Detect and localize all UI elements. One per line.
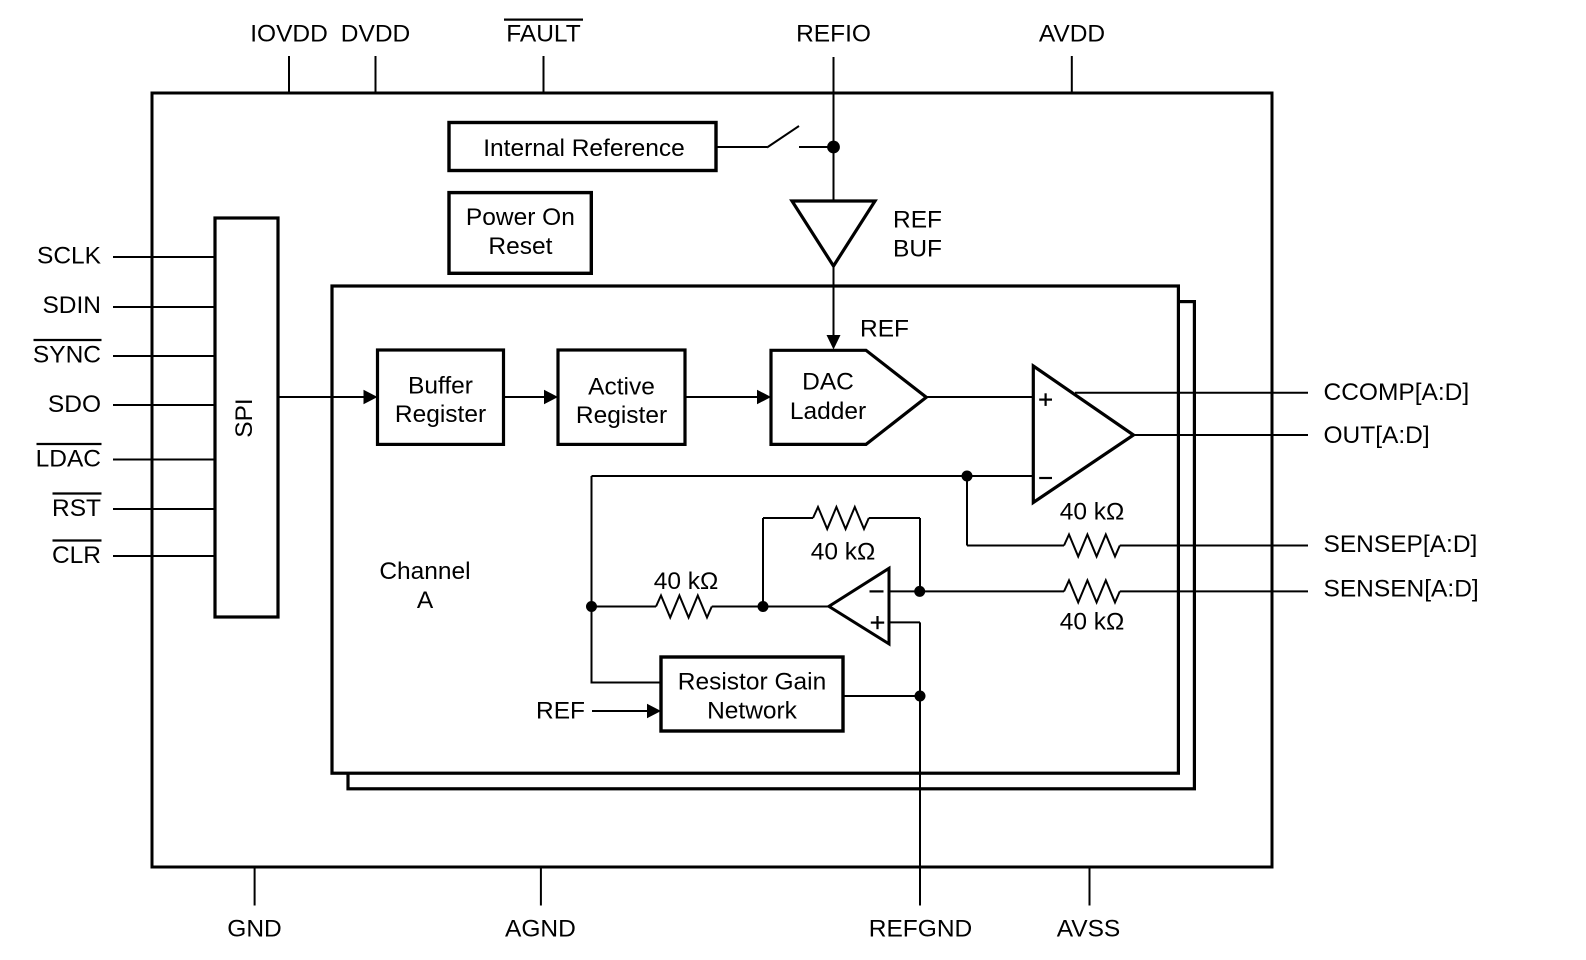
resistor 40k SENSEP xyxy=(967,499,1477,559)
wire OUT[A:D] output xyxy=(1134,422,1430,449)
svg-text:Buffer: Buffer xyxy=(408,373,473,400)
pin CLR (active low) xyxy=(52,541,215,570)
svg-text:40 kΩ: 40 kΩ xyxy=(1060,499,1125,526)
svg-text:SYNC: SYNC xyxy=(33,342,101,369)
svg-text:OUT[A:D]: OUT[A:D] xyxy=(1324,422,1430,449)
chip outer boundary xyxy=(152,93,1272,867)
pin LDAC (active low) xyxy=(36,444,215,473)
Power On Reset block xyxy=(449,193,591,274)
svg-text:Register: Register xyxy=(576,402,667,429)
wire Active Register to DAC Ladder (arrow) xyxy=(685,390,771,405)
wire op-amp inverting input feedback xyxy=(592,476,1034,607)
wire REF into gain network (arrow) xyxy=(536,698,661,725)
switch from internal reference to REFIO node xyxy=(716,126,834,148)
output op-amp xyxy=(1033,366,1133,503)
pin AVDD xyxy=(1039,21,1105,94)
svg-text:Register: Register xyxy=(395,401,486,428)
svg-text:Resistor Gain: Resistor Gain xyxy=(678,669,826,696)
node: gain network output junction xyxy=(915,691,926,702)
pin RST (active low) xyxy=(52,494,215,523)
wire Buffer to Active Register (arrow) xyxy=(504,390,559,405)
pin AGND xyxy=(505,867,576,943)
pin SDIN xyxy=(42,292,215,319)
resistor 40k (left, inverting input) xyxy=(592,568,829,618)
wire DAC ladder to op-amp non-inverting input xyxy=(926,396,1033,398)
svg-text:AVDD: AVDD xyxy=(1039,21,1105,48)
wire REFIO vertical into chip xyxy=(833,57,835,201)
svg-text:REF: REF xyxy=(893,207,942,234)
svg-text:40 kΩ: 40 kΩ xyxy=(811,539,876,566)
node: REFIO / switch junction xyxy=(827,141,840,154)
svg-text:SDIN: SDIN xyxy=(42,292,101,319)
svg-text:AGND: AGND xyxy=(505,916,576,943)
svg-text:Channel: Channel xyxy=(379,558,470,585)
svg-text:REFGND: REFGND xyxy=(869,916,972,943)
Active Register block xyxy=(558,350,685,444)
resistor 40k SENSEN xyxy=(889,576,1479,636)
svg-text:A: A xyxy=(417,587,434,614)
sense amplifier xyxy=(829,568,889,644)
REF BUF amplifier xyxy=(792,201,942,266)
Internal Reference block xyxy=(449,123,716,171)
Channel A label xyxy=(379,558,470,614)
svg-text:SCLK: SCLK xyxy=(37,243,102,270)
svg-text:REF: REF xyxy=(536,698,585,725)
pin IOVDD xyxy=(250,21,328,94)
wire SENSEP drop xyxy=(966,476,968,546)
wire left feedback into gain network xyxy=(592,607,662,683)
svg-text:LDAC: LDAC xyxy=(36,446,101,473)
SPI interface block xyxy=(215,218,278,617)
svg-text:Power On: Power On xyxy=(466,204,575,231)
svg-text:SENSEN[A:D]: SENSEN[A:D] xyxy=(1324,576,1479,603)
svg-text:SENSEP[A:D]: SENSEP[A:D] xyxy=(1324,531,1478,558)
svg-text:REFIO: REFIO xyxy=(796,21,871,48)
Channel A block xyxy=(332,286,1178,773)
svg-text:Internal Reference: Internal Reference xyxy=(483,135,685,162)
svg-text:Ladder: Ladder xyxy=(790,398,866,425)
svg-text:GND: GND xyxy=(227,916,281,943)
wire SPI to Buffer Register (arrow) xyxy=(278,390,378,405)
pin REFIO xyxy=(796,21,871,48)
pin AVSS xyxy=(1057,867,1121,943)
Channel shadow block (channels B:D) xyxy=(348,302,1194,789)
pin FAULT (active low) xyxy=(504,20,583,93)
Buffer Register block xyxy=(378,350,504,444)
Resistor Gain Network block xyxy=(661,657,843,731)
pin SCLK xyxy=(37,243,215,270)
svg-text:SPI: SPI xyxy=(231,398,258,438)
pin GND xyxy=(227,867,281,943)
pin REFGND xyxy=(869,916,972,943)
svg-text:SDO: SDO xyxy=(48,391,101,418)
svg-text:40 kΩ: 40 kΩ xyxy=(654,568,719,595)
svg-text:FAULT: FAULT xyxy=(506,21,580,48)
pin SYNC (active low) xyxy=(33,340,215,369)
svg-text:Reset: Reset xyxy=(488,233,552,260)
DAC Ladder block xyxy=(771,350,926,444)
svg-text:CLR: CLR xyxy=(52,542,101,569)
svg-text:DAC: DAC xyxy=(802,369,854,396)
svg-text:40 kΩ: 40 kΩ xyxy=(1060,609,1125,636)
node: feedback / SENSEN junction xyxy=(914,586,925,597)
wire sense amp non-inverting input to gain network output / REFGND xyxy=(889,622,920,905)
node: sense amp output junction xyxy=(758,601,769,612)
svg-text:Network: Network xyxy=(707,698,798,725)
wire REF from buffer into DAC ladder (arrow) xyxy=(827,266,910,350)
svg-text:CCOMP[A:D]: CCOMP[A:D] xyxy=(1324,379,1470,406)
svg-text:DVDD: DVDD xyxy=(341,21,410,48)
feedback resistor 40k (top) xyxy=(763,507,920,607)
wire gain network output xyxy=(843,695,920,697)
pin SDO xyxy=(48,391,215,418)
svg-text:BUF: BUF xyxy=(893,236,942,263)
node: inverting input / SENSEP junction xyxy=(962,471,973,482)
node: inverting feedback left junction xyxy=(586,601,597,612)
svg-text:Active: Active xyxy=(588,374,655,401)
svg-text:REF: REF xyxy=(860,316,909,343)
pin DVDD xyxy=(341,21,410,94)
svg-text:AVSS: AVSS xyxy=(1057,916,1121,943)
svg-text:RST: RST xyxy=(52,495,101,522)
wire CCOMP[A:D] output xyxy=(1075,379,1469,406)
svg-text:IOVDD: IOVDD xyxy=(250,21,328,48)
